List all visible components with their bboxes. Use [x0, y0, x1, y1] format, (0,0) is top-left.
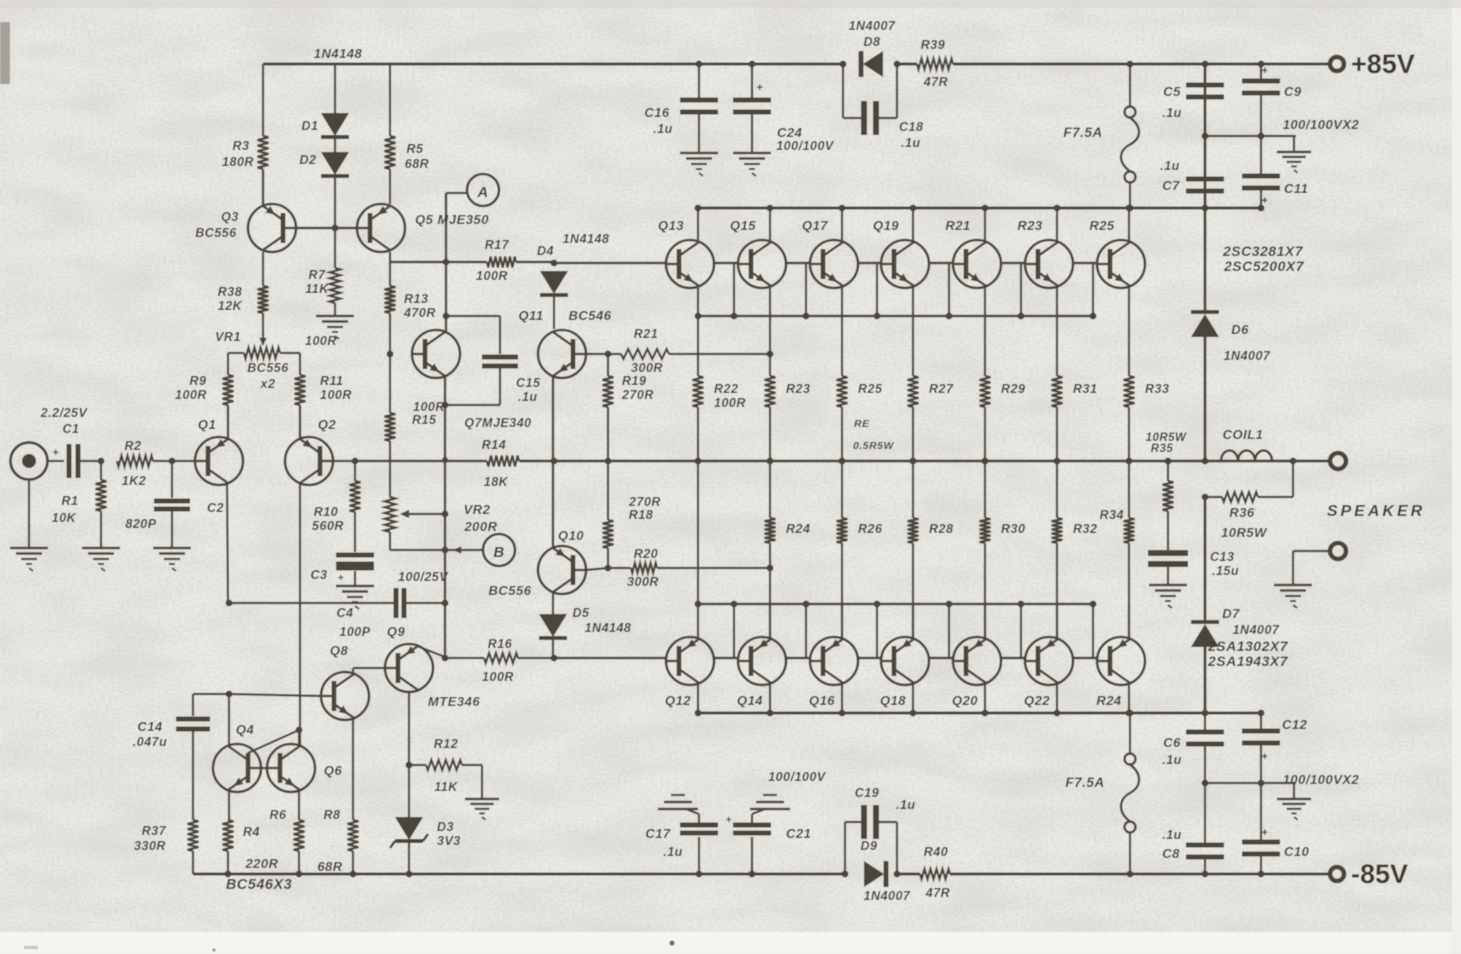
wire Q13 collector drop	[697, 208, 699, 242]
capacitor C5 .1u	[1186, 83, 1224, 88]
svg-text:D6: D6	[1231, 322, 1249, 337]
resistor R18 270R	[607, 461, 609, 520]
resistor R27	[912, 316, 914, 376]
svg-text:200R: 200R	[463, 519, 497, 534]
svg-text:x2: x2	[260, 377, 276, 391]
capacitor C17 .1u with ground above	[698, 837, 700, 874]
svg-text:.1u: .1u	[663, 845, 683, 859]
wire Q20 collector drop	[984, 683, 986, 713]
capacitor C15 .1u	[499, 316, 501, 354]
svg-text:C15: C15	[516, 376, 541, 390]
svg-text:Q14: Q14	[737, 693, 763, 708]
svg-text:R30: R30	[1001, 522, 1025, 536]
transistor Q2	[285, 437, 333, 485]
terminal +85V	[1330, 57, 1344, 71]
wire spine to C4 node	[444, 550, 446, 658]
svg-text:R18: R18	[629, 508, 653, 522]
resistor R33	[1128, 316, 1130, 376]
wire Q12/Q13 shared column x=698	[697, 461, 699, 604]
wire Q2 collector down	[299, 483, 301, 746]
svg-text:R4: R4	[243, 825, 260, 839]
svg-text:R8: R8	[324, 808, 341, 822]
svg-text:R2: R2	[125, 439, 142, 453]
capacitor C9 100/100V	[1260, 64, 1262, 81]
svg-text:C16: C16	[644, 105, 670, 120]
wire R21 collector drop	[984, 208, 986, 242]
node Q7 base	[387, 351, 394, 358]
svg-text:10K: 10K	[52, 511, 77, 525]
svg-text:D5: D5	[573, 606, 591, 620]
resistor R38 12K	[262, 252, 264, 286]
wire from rail to R3	[262, 64, 264, 136]
wire Q1 collector down	[227, 483, 228, 603]
wire Q13 emitter drop	[697, 286, 699, 316]
svg-text:R19: R19	[622, 374, 646, 388]
svg-text:R34: R34	[1100, 508, 1124, 522]
svg-text:C19: C19	[855, 786, 879, 800]
svg-text:C12: C12	[1282, 717, 1308, 732]
svg-text:Q4: Q4	[236, 722, 255, 737]
capacitor C4 100P	[229, 602, 394, 604]
svg-text:.15u: .15u	[1212, 564, 1239, 578]
svg-text:+: +	[53, 447, 60, 459]
svg-text:BC556: BC556	[247, 361, 289, 375]
resistor R16 100R	[445, 657, 484, 659]
wire Q15 collector drop	[769, 208, 771, 242]
svg-text:R33: R33	[1145, 382, 1169, 396]
wire Q14 emitter rise	[769, 604, 771, 639]
resistor R35 10R5W	[1165, 458, 1172, 465]
svg-text:B: B	[493, 544, 504, 561]
svg-text:.1u: .1u	[653, 122, 673, 136]
svg-text:Q8: Q8	[330, 643, 349, 658]
svg-text:D2: D2	[300, 153, 317, 167]
capacitor C3 100/25V electrolytic	[354, 512, 356, 552]
capacitor C21 100/100V with ground above	[751, 837, 753, 874]
svg-text:Q5 MJE350: Q5 MJE350	[415, 212, 489, 227]
potentiometer VR1 100R	[262, 313, 264, 344]
svg-text:COIL1: COIL1	[1223, 427, 1264, 442]
resistor R26	[841, 461, 843, 518]
svg-text:R20: R20	[634, 547, 658, 561]
ground below R12	[465, 798, 499, 801]
wire R23 emitter drop	[1056, 286, 1058, 316]
svg-text:.047u: .047u	[133, 735, 167, 749]
svg-text:D9: D9	[861, 839, 878, 853]
svg-text:+85V: +85V	[1351, 49, 1415, 79]
resistor R9 100R	[227, 353, 229, 375]
capacitor C12 100/100V	[1260, 713, 1262, 731]
wire Q8 base line	[229, 694, 320, 696]
svg-text:100P: 100P	[339, 625, 370, 639]
svg-text:D7: D7	[1222, 606, 1240, 621]
ground mid bus bottom	[1293, 783, 1295, 799]
svg-text:100R: 100R	[714, 396, 746, 410]
svg-text:C17: C17	[645, 826, 671, 841]
inductor COIL1	[1221, 450, 1272, 461]
transistor Q16 output PNP	[810, 637, 858, 685]
ground mid bus top	[1293, 136, 1295, 152]
capacitor C18 .1u bridging D8	[842, 64, 844, 118]
svg-text:R36: R36	[1229, 505, 1255, 520]
svg-text:Q2: Q2	[318, 417, 337, 432]
svg-text:.1u: .1u	[1162, 828, 1182, 842]
scan edge artifact top-left	[0, 22, 10, 84]
svg-text:R15: R15	[412, 413, 437, 427]
resistor R14 18K	[487, 456, 519, 467]
svg-text:Q22: Q22	[1024, 693, 1050, 708]
resistor R20 300R	[608, 567, 631, 569]
svg-text:300R: 300R	[627, 575, 659, 589]
svg-text:+: +	[1262, 751, 1269, 763]
svg-text:Q7MJE340: Q7MJE340	[464, 416, 531, 430]
wire R24 emitter rise	[1128, 604, 1130, 639]
svg-text:R40: R40	[924, 845, 948, 859]
svg-text:2SA1302X7: 2SA1302X7	[1207, 638, 1289, 654]
resistor R1 10K	[96, 480, 107, 511]
wire Q11 collector-emitter spine x=553	[552, 376, 554, 547]
node base of Q3/Q5	[332, 225, 339, 232]
svg-text:C1: C1	[63, 422, 80, 436]
svg-text:1N4007: 1N4007	[1224, 349, 1271, 363]
transistor Q7 MJE340	[412, 330, 460, 378]
svg-text:+: +	[1262, 65, 1269, 77]
svg-text:R6: R6	[270, 808, 288, 822]
transistor Q4	[213, 744, 261, 792]
transistor R23 output NPN	[1025, 240, 1073, 288]
svg-text:68R: 68R	[317, 859, 342, 874]
wire bottom collector bus	[698, 712, 1261, 715]
wire Q19 emitter drop	[912, 286, 914, 316]
svg-text:560R: 560R	[312, 519, 344, 533]
wire Q18 collector drop	[912, 683, 914, 713]
svg-text:C13: C13	[1210, 550, 1234, 564]
svg-text:C10: C10	[1284, 844, 1310, 859]
svg-text:100/100V: 100/100V	[776, 139, 835, 153]
wire base line to Q12	[554, 657, 665, 659]
wire bias bus y=262	[390, 261, 487, 263]
wire bottom base bus y=604	[698, 603, 1093, 605]
wire base riser for Q17	[805, 263, 807, 316]
terminal speaker +	[1330, 453, 1346, 469]
transistor Q1	[195, 437, 243, 485]
ground below R7	[334, 303, 336, 316]
svg-text:R28: R28	[929, 522, 953, 536]
svg-text:2SC5200X7: 2SC5200X7	[1223, 258, 1305, 274]
diode D6 1N4007	[1204, 208, 1207, 312]
wire top base bus y=316	[698, 315, 1093, 317]
transistor Q8	[321, 672, 369, 720]
capacitor C11 100/100V	[1260, 136, 1262, 176]
svg-text:Q18: Q18	[880, 693, 906, 708]
svg-text:C5: C5	[1163, 84, 1181, 99]
svg-text:R38: R38	[218, 285, 242, 299]
fuse F7.5A bottom	[1129, 713, 1131, 754]
resistor R2 1K2	[117, 456, 153, 467]
svg-text:100R: 100R	[175, 388, 207, 402]
wire D2 to base node	[334, 177, 336, 228]
transistor Q12 output PNP	[666, 637, 714, 685]
wire Q1 emitter column	[227, 405, 229, 439]
svg-text:100R: 100R	[476, 269, 508, 283]
svg-text:12K: 12K	[218, 299, 243, 313]
resistor R10 560R	[354, 461, 356, 481]
svg-text:C7: C7	[1162, 178, 1180, 193]
svg-text:Q13: Q13	[658, 218, 684, 233]
svg-text:R26: R26	[858, 522, 883, 536]
wire VAS spine x=446	[445, 193, 447, 331]
wire Q9 emitter to R16 node	[417, 646, 445, 657]
resistor R28	[912, 461, 914, 518]
wire mid bus top caps	[1205, 135, 1296, 137]
potentiometer VR2 200R	[385, 497, 396, 532]
svg-text:C14: C14	[137, 719, 163, 734]
wire Q16 collector drop	[841, 683, 843, 713]
svg-text:R17: R17	[485, 238, 510, 252]
svg-text:R24: R24	[786, 522, 810, 536]
svg-text:R13: R13	[404, 292, 428, 306]
resistor R34	[1128, 461, 1130, 518]
wire Q22 emitter rise	[1056, 604, 1058, 639]
resistor R40 47R inline	[920, 869, 950, 879]
resistor R17 100R	[487, 257, 516, 268]
wire Q9 collector down	[408, 691, 410, 818]
resistor R24	[769, 461, 771, 518]
capacitor C8 .1u	[1186, 843, 1224, 848]
svg-text:11K: 11K	[434, 780, 458, 794]
svg-text:Q20: Q20	[952, 693, 978, 708]
svg-text:470R: 470R	[403, 306, 436, 320]
terminal speaker -	[1330, 543, 1346, 559]
svg-text:47R: 47R	[923, 75, 948, 89]
svg-text:180R: 180R	[222, 155, 254, 169]
wire Q22 collector drop	[1056, 683, 1058, 713]
svg-text:R9: R9	[190, 374, 207, 388]
resistor R15 100R	[389, 354, 391, 413]
wire base riser for R21	[948, 263, 950, 316]
svg-text:R16: R16	[488, 637, 513, 651]
ground below C3	[336, 585, 374, 588]
svg-text:VR2: VR2	[464, 502, 491, 517]
svg-text:R11: R11	[320, 374, 344, 388]
wire Q12 emitter rise	[697, 604, 699, 639]
capacitor C19 .1u bridging D9	[844, 822, 846, 874]
wire Q6 collector up	[298, 731, 300, 746]
input jack	[11, 443, 48, 480]
wire base riser for Q15	[733, 263, 735, 316]
zener D3 3V3	[395, 817, 423, 840]
svg-text:R23: R23	[786, 382, 810, 396]
svg-text:+: +	[338, 573, 344, 584]
resistor R30	[984, 461, 986, 518]
wire base riser for Q14	[733, 604, 735, 658]
svg-text:270R: 270R	[621, 388, 654, 402]
resistor R22	[697, 316, 699, 376]
diode D4 1N4148	[540, 271, 568, 294]
svg-text:SPEAKER: SPEAKER	[1327, 503, 1425, 520]
svg-text:R21: R21	[945, 218, 970, 233]
svg-text:100R: 100R	[305, 334, 337, 348]
svg-text:R3: R3	[233, 139, 250, 153]
wire Q2 emitter column	[299, 405, 301, 439]
wire R23 collector drop	[1056, 208, 1058, 242]
svg-text:R1: R1	[62, 494, 79, 508]
transistor Q11 BC546	[538, 330, 586, 378]
wire base riser for R24	[1092, 604, 1094, 658]
svg-text:R24: R24	[1096, 693, 1122, 708]
svg-text:Q11: Q11	[518, 308, 543, 323]
wire Q18 emitter rise	[912, 604, 914, 639]
svg-text:C11: C11	[1284, 181, 1308, 196]
svg-text:Q12: Q12	[665, 693, 691, 708]
transistor Q15 output NPN	[738, 240, 786, 288]
resistor R25	[841, 316, 843, 376]
wire Q8 collector to Q9 base	[352, 668, 354, 674]
wire base riser for R25	[1092, 263, 1094, 316]
resistor R12 11K	[409, 764, 426, 766]
resistor R37 330R	[188, 820, 199, 851]
transistor Q5 MJE350	[357, 204, 405, 252]
svg-text:C18: C18	[899, 120, 923, 134]
wire jack to ground	[28, 479, 30, 548]
svg-text:Q6: Q6	[324, 763, 343, 778]
svg-text:C24: C24	[777, 125, 803, 140]
wire top collector bus	[698, 207, 1261, 210]
wire Q15 emitter drop	[769, 286, 771, 316]
capacitor C16 .1u	[698, 64, 700, 100]
svg-text:R32: R32	[1073, 522, 1097, 536]
capacitor C24 100/100V	[751, 64, 753, 100]
svg-text:Q10: Q10	[558, 528, 584, 543]
svg-text:1N4007: 1N4007	[849, 19, 896, 33]
svg-text:+: +	[757, 82, 764, 94]
wire main right spine x=1205	[1204, 64, 1207, 208]
wire Q4 collector up	[228, 694, 230, 746]
svg-text:100R: 100R	[482, 670, 514, 684]
capacitor C10 100/100V	[1260, 783, 1262, 842]
wire base riser for Q18	[876, 604, 878, 658]
capacitor C1 electrolytic	[48, 460, 64, 462]
transistor Q6	[267, 744, 315, 792]
resistor R31	[1056, 316, 1058, 376]
svg-text:.1u: .1u	[518, 390, 538, 404]
wire +85V top rail	[263, 63, 843, 66]
svg-text:C2: C2	[207, 501, 224, 515]
capacitor C6 .1u	[1204, 713, 1206, 732]
svg-text:R10: R10	[314, 505, 338, 519]
svg-text:1N4148: 1N4148	[585, 621, 632, 635]
svg-text:R39: R39	[921, 38, 945, 52]
node C15 box top	[443, 313, 450, 320]
transistor Q22 output PNP	[1025, 637, 1073, 685]
svg-text:C3: C3	[311, 568, 328, 582]
svg-text:100/25V: 100/25V	[398, 570, 449, 584]
resistor R13 470R	[389, 262, 391, 286]
resistor R32	[1056, 461, 1058, 518]
wire R25 emitter drop	[1128, 286, 1130, 316]
svg-text:1N4007: 1N4007	[864, 889, 911, 903]
wire R25 collector drop	[1128, 208, 1130, 242]
svg-text:+: +	[1262, 827, 1269, 839]
svg-text:D1: D1	[302, 119, 319, 133]
svg-text:100R: 100R	[320, 388, 352, 402]
svg-text:Q15: Q15	[730, 218, 756, 233]
svg-text:C21: C21	[786, 826, 811, 841]
svg-text:2SC3281X7: 2SC3281X7	[1222, 243, 1304, 259]
resistor R23	[769, 316, 771, 376]
svg-text:F7.5A: F7.5A	[1063, 125, 1102, 140]
svg-text:330R: 330R	[134, 839, 166, 853]
svg-text:68R: 68R	[405, 157, 429, 171]
wire Q16 emitter rise	[841, 604, 843, 639]
svg-text:Q3: Q3	[221, 210, 239, 224]
resistor R39 47R inline on +85V rail	[917, 59, 953, 70]
capacitor C7 .1u	[1186, 177, 1224, 182]
wire Q7 emitter down spine	[444, 377, 446, 550]
svg-text:3V3: 3V3	[437, 834, 461, 848]
svg-text:C8: C8	[1162, 846, 1180, 861]
paper specks	[670, 941, 675, 946]
svg-text:+: +	[726, 815, 732, 826]
svg-text:RE: RE	[854, 418, 870, 430]
transistor Q17 output NPN	[810, 240, 858, 288]
wire base riser for Q16	[805, 604, 807, 658]
transistor Q13 output NPN	[666, 240, 714, 288]
svg-text:BC556: BC556	[195, 226, 237, 240]
transistor Q20 output PNP	[953, 637, 1001, 685]
svg-text:D3: D3	[437, 820, 454, 834]
wire Q20 emitter rise	[984, 604, 986, 639]
svg-text:F7.5A: F7.5A	[1065, 775, 1104, 790]
node D4 top	[551, 260, 558, 267]
transistor Q14 output PNP	[738, 637, 786, 685]
diode D7 1N4007	[1204, 497, 1207, 622]
svg-text:R31: R31	[1073, 382, 1097, 396]
node B test point	[483, 534, 515, 566]
wire base riser for Q20	[948, 604, 950, 658]
svg-text:100/100VX2: 100/100VX2	[1283, 117, 1360, 132]
resistor R3 180R	[258, 136, 269, 169]
svg-text:-85V: -85V	[1351, 859, 1408, 889]
transistor Q3 BC556	[248, 204, 296, 252]
svg-text:100/100V: 100/100V	[768, 770, 827, 784]
wire Q5 collector to bus	[389, 252, 391, 262]
svg-text:1N4007: 1N4007	[1233, 623, 1280, 637]
svg-text:11K: 11K	[305, 282, 329, 296]
svg-text:D4: D4	[537, 244, 554, 258]
fuse F7.5A top	[1129, 64, 1131, 107]
svg-text:2.2/25V: 2.2/25V	[40, 406, 89, 420]
svg-text:47R: 47R	[925, 886, 950, 900]
svg-text:R29: R29	[1001, 382, 1025, 396]
svg-text:220R: 220R	[244, 856, 278, 871]
wire Q17 collector drop	[841, 208, 843, 242]
svg-text:2SA1943X7: 2SA1943X7	[1207, 653, 1289, 669]
wire Q12 collector drop	[697, 683, 699, 713]
diode D1 1N4148	[334, 64, 336, 114]
capacitor C14 .047u	[192, 694, 194, 716]
svg-text:1N4148: 1N4148	[563, 232, 610, 246]
svg-text:18K: 18K	[484, 475, 509, 489]
capacitor C2 820P	[171, 461, 173, 498]
wire mid bus bottom caps	[1205, 782, 1296, 784]
wire Q11 base to R19/R21 node	[586, 353, 608, 355]
svg-text:R27: R27	[929, 382, 954, 396]
resistor R5 68R	[389, 64, 391, 136]
svg-text:C6: C6	[1163, 735, 1181, 750]
diode D2 1N4148	[334, 139, 336, 153]
node A test point	[467, 174, 499, 206]
